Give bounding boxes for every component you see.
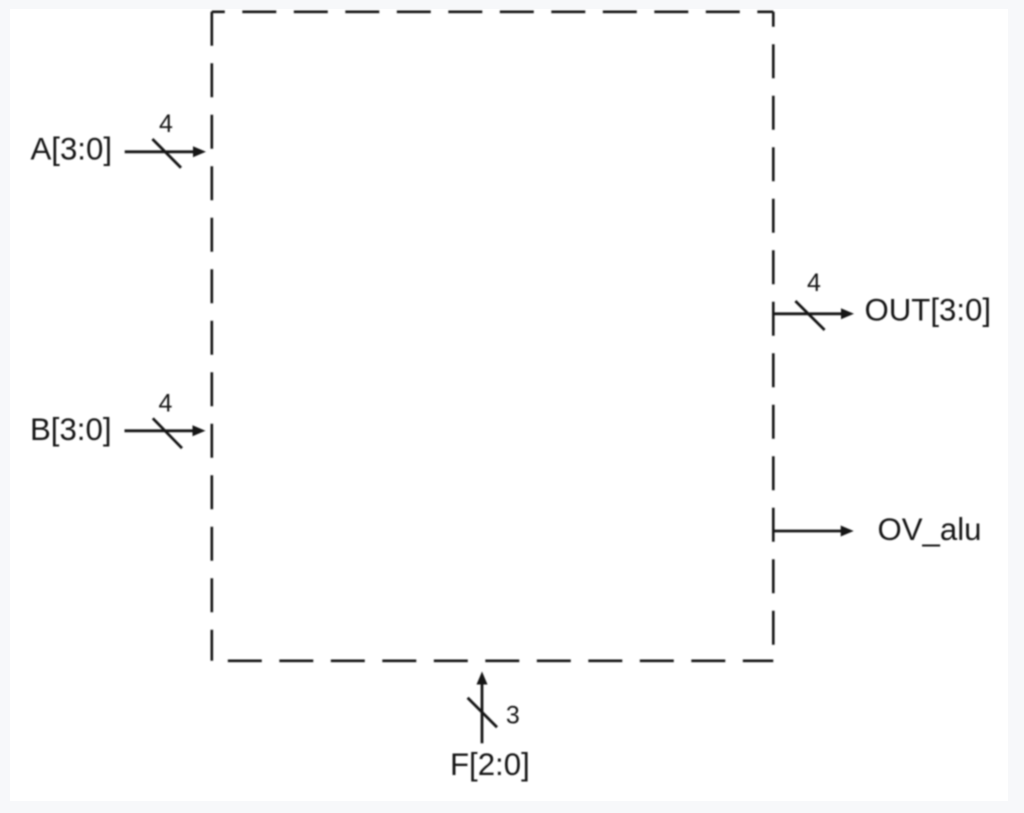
svg-text:B[3:0]: B[3:0] (30, 412, 112, 447)
svg-text:A[3:0]: A[3:0] (31, 132, 113, 167)
svg-text:OV_alu: OV_alu (878, 512, 982, 547)
svg-text:4: 4 (159, 390, 173, 418)
bus slash on OUT (795, 301, 824, 330)
wire: F control input arrow (vertical) (481, 684, 484, 744)
wire: OUT output arrow (773, 312, 842, 315)
wire: OV_alu output arrow (773, 530, 841, 533)
svg-text:4: 4 (159, 110, 173, 138)
ALU block bottom side (212, 659, 774, 662)
ALU block left side (211, 12, 214, 661)
wire: B input arrow (125, 429, 194, 432)
svg-text:OUT[3:0]: OUT[3:0] (865, 292, 992, 327)
ALU block right side (772, 12, 775, 661)
bus slash on B (153, 418, 182, 448)
svg-text:F[2:0]: F[2:0] (450, 747, 530, 782)
ALU block (dashed box) top side (212, 11, 774, 14)
svg-text:3: 3 (506, 702, 520, 730)
svg-text:4: 4 (807, 269, 821, 297)
bus slash on F (468, 698, 497, 728)
wire: A input arrow (125, 150, 194, 153)
bus slash on A (152, 139, 181, 168)
